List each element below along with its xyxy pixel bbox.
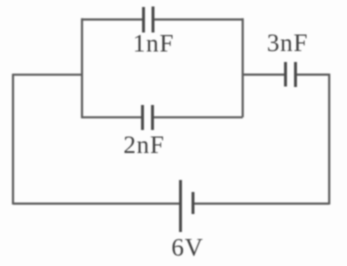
wire: outer left vertical (12, 74, 14, 205)
svg-text:3nF: 3nF (267, 30, 308, 57)
wire: inner box bottom wire right of C2 (153, 116, 243, 118)
wire: outer right vertical (328, 74, 330, 205)
wire: bottom wire left of battery (13, 203, 180, 205)
wire: bottom wire right of battery (193, 203, 329, 205)
wire: inner box left vertical (81, 18, 83, 118)
svg-text:1nF: 1nF (133, 31, 174, 58)
capacitor C2 2nF plates (143, 105, 153, 130)
capacitor C1 1nF plates (144, 7, 154, 33)
capacitor C3 3nF plates (286, 62, 296, 87)
battery B1 long plate (179, 180, 182, 232)
wire: left branch horizontal (13, 74, 83, 76)
svg-text:2nF: 2nF (123, 132, 164, 159)
wire: right branch right of C3 (296, 73, 329, 75)
wire: inner box top wire left of C1 (82, 18, 143, 20)
wire: inner box right vertical (242, 18, 244, 117)
wire: right branch left of C3 (243, 73, 285, 75)
wire: inner box top wire right of C1 (153, 18, 243, 20)
battery B1 short plate (192, 192, 195, 214)
wire: inner box bottom wire left of C2 (82, 116, 142, 118)
svg-text:6V: 6V (171, 235, 203, 262)
